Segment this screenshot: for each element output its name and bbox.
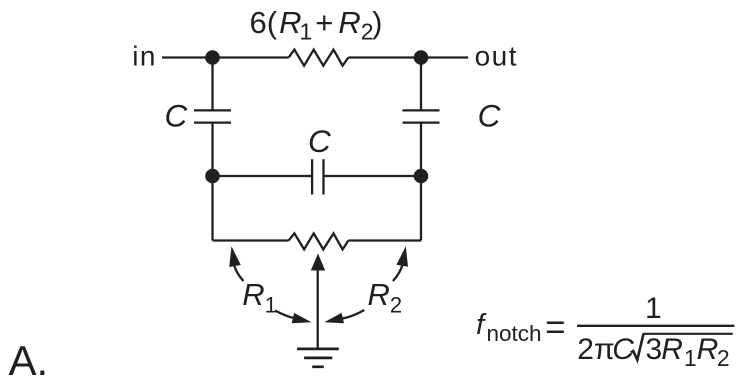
svg-text:C: C [165,98,188,134]
svg-text:=: = [545,308,565,347]
svg-text:A.: A. [9,337,49,382]
svg-text:notch: notch [487,321,542,346]
svg-text:2πC: 2πC [577,333,634,366]
svg-text:out: out [475,40,518,71]
svg-text:C: C [478,97,501,133]
svg-text:1: 1 [645,292,662,325]
svg-text:C: C [308,123,331,159]
svg-text:in: in [132,40,157,71]
